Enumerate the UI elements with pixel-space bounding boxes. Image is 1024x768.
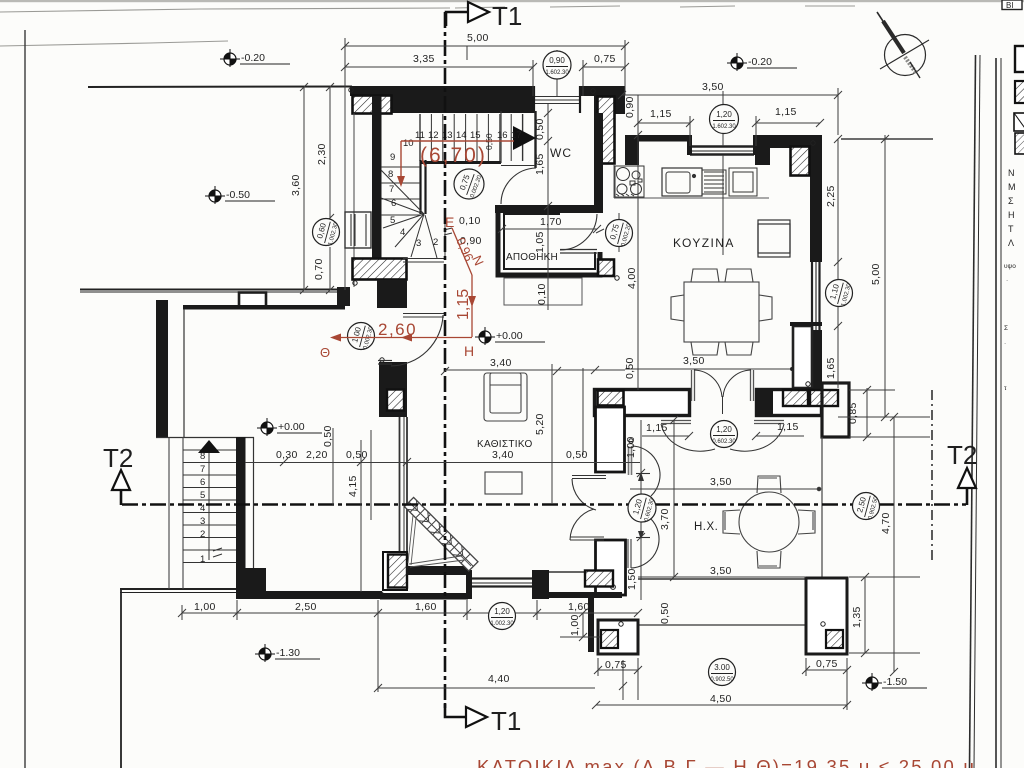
column C7 SW living hatched xyxy=(383,552,407,590)
top wall outer strip xyxy=(350,86,535,96)
boundary wall bar left of stair block xyxy=(337,287,350,306)
south site boundary xyxy=(120,589,238,593)
4,50 dim xyxy=(596,704,847,706)
svg-text:Σ: Σ xyxy=(1004,325,1008,332)
veranda north wall right part xyxy=(757,390,822,416)
kitchen south wall (hollow) xyxy=(595,390,690,416)
column C6 hatched xyxy=(387,390,404,411)
east dim 5,00 xyxy=(884,135,886,417)
stair core wall xyxy=(419,160,421,214)
kitchen east window xyxy=(812,262,820,330)
armchair living xyxy=(484,373,527,421)
left flight treads xyxy=(381,167,421,215)
svg-text:1,20: 1,20 xyxy=(716,110,732,119)
outdoor stair numbers xyxy=(200,451,205,565)
window centerline kitchen xyxy=(722,91,724,146)
svg-text:ΑΠΟΘΗΚΗ: ΑΠΟΘΗΚΗ xyxy=(506,252,558,263)
svg-text:0,75: 0,75 xyxy=(816,658,838,670)
svg-text:T1: T1 xyxy=(492,1,522,31)
hall small dims row xyxy=(245,462,640,464)
garage west wall xyxy=(156,300,168,437)
svg-text:2: 2 xyxy=(200,529,205,540)
svg-text:16: 16 xyxy=(497,130,508,141)
T1 bottom flag xyxy=(445,703,466,717)
svg-text:Τ: Τ xyxy=(1008,224,1014,234)
kitchen north wall xyxy=(625,135,689,142)
T2 horizontal dash-dot xyxy=(122,503,966,506)
living west glass wall xyxy=(400,417,408,554)
svg-text:3: 3 xyxy=(200,516,205,527)
4,40 dim xyxy=(378,687,595,689)
veranda 3,50 top dim xyxy=(630,488,819,490)
entrance door xyxy=(391,315,443,366)
svg-text:Ν: Ν xyxy=(1008,168,1015,178)
window centerline xyxy=(556,50,558,96)
svg-text:2,30: 2,30 xyxy=(316,143,328,165)
svg-text:1,65: 1,65 xyxy=(825,357,837,379)
svg-text:2: 2 xyxy=(433,237,438,248)
svg-text:ΚΑΘΙΣΤΙΚΟ: ΚΑΘΙΣΤΙΚΟ xyxy=(477,439,533,450)
WC west partition line xyxy=(534,111,536,168)
garage south edge xyxy=(156,437,254,439)
south window xyxy=(472,579,532,587)
step 2 tick marks xyxy=(444,228,452,235)
svg-text:1,15: 1,15 xyxy=(646,422,668,434)
legend vertical letters xyxy=(1008,168,1016,248)
landing lines below stairs xyxy=(403,258,444,260)
svg-text:Λ: Λ xyxy=(1008,238,1014,248)
top wall inner mass xyxy=(373,95,534,113)
low shelf below storage 0,10 xyxy=(504,278,582,305)
svg-text:-0.20: -0.20 xyxy=(748,56,772,68)
veranda door dims 1,15 1,15 xyxy=(642,435,689,437)
living west wall xyxy=(379,362,407,417)
garage north wall xyxy=(183,305,345,310)
hall 3,40 dim xyxy=(445,369,625,371)
legend title box top right xyxy=(1002,0,1022,10)
svg-text:10: 10 xyxy=(403,138,414,149)
svg-text:1.602.30: 1.602.30 xyxy=(712,124,736,130)
svg-text:17: 17 xyxy=(511,130,522,141)
svg-text:5,00: 5,00 xyxy=(870,263,882,285)
svg-text:15: 15 xyxy=(470,130,481,141)
svg-text:0,50: 0,50 xyxy=(624,357,636,379)
svg-text:8: 8 xyxy=(388,169,393,180)
storage door arc xyxy=(560,214,597,250)
svg-text:2,50: 2,50 xyxy=(295,601,317,613)
west wall of stair block xyxy=(372,96,382,262)
dim 5,00 top xyxy=(345,45,625,47)
bottom dims row y613 xyxy=(182,612,638,614)
living south wall upper line xyxy=(406,566,468,575)
svg-text:1,20: 1,20 xyxy=(716,425,732,434)
svg-text:4,50: 4,50 xyxy=(710,693,732,705)
0,75 bottom dims xyxy=(598,669,638,671)
svg-text:3,40: 3,40 xyxy=(490,357,512,369)
dim 3,35 xyxy=(345,66,533,68)
svg-text:3: 3 xyxy=(416,238,421,249)
svg-text:0,85: 0,85 xyxy=(847,402,859,424)
T1 top flag xyxy=(446,12,468,26)
wall going down to SW veranda post xyxy=(588,598,594,652)
svg-text:1,15: 1,15 xyxy=(775,106,797,118)
svg-text:1,60: 1,60 xyxy=(415,601,437,613)
svg-text:0,75: 0,75 xyxy=(594,53,616,65)
svg-text:8: 8 xyxy=(200,451,205,462)
svg-text:0,30: 0,30 xyxy=(276,449,298,461)
veranda south parapet lines xyxy=(638,578,806,580)
west site boundary lower xyxy=(120,589,122,768)
svg-text:-1.50: -1.50 xyxy=(883,676,907,688)
svg-text:3.00: 3.00 xyxy=(714,663,730,672)
svg-text:·: · xyxy=(1004,340,1006,347)
svg-text:1,70: 1,70 xyxy=(540,216,562,228)
svg-text:0,90: 0,90 xyxy=(549,56,565,65)
svg-text:3,70: 3,70 xyxy=(659,508,671,530)
svg-text:3,40: 3,40 xyxy=(492,449,514,461)
top flight treads xyxy=(420,114,523,161)
svg-text:13: 13 xyxy=(442,130,453,141)
stove xyxy=(615,166,644,197)
east dims 2,25 / 1,10 / 1,65 xyxy=(837,139,839,388)
svg-text:0,50: 0,50 xyxy=(322,425,334,447)
svg-text:0.902.50: 0.902.50 xyxy=(710,677,734,683)
columns C9 C10 hatched xyxy=(783,390,808,406)
svg-text:14: 14 xyxy=(456,130,467,141)
WC east wall xyxy=(594,113,603,206)
scan top edge band xyxy=(0,0,1024,2)
svg-text:T1: T1 xyxy=(491,706,521,736)
svg-text:1,00: 1,00 xyxy=(569,614,581,636)
svg-text:9: 9 xyxy=(390,152,395,163)
window in top wall xyxy=(534,97,580,104)
svg-text:E: E xyxy=(445,214,454,230)
WC door arc xyxy=(501,168,536,204)
left dim 3,60 / 2,30 xyxy=(303,87,305,290)
T1 vertical dash-dot xyxy=(444,12,447,712)
svg-text:1,20: 1,20 xyxy=(494,607,510,616)
svg-text:3,60: 3,60 xyxy=(290,174,302,196)
svg-text:0,50: 0,50 xyxy=(659,602,671,624)
site boundary left-bottom line xyxy=(80,290,338,293)
svg-text:1,15: 1,15 xyxy=(650,108,672,120)
svg-text:5,20: 5,20 xyxy=(534,413,546,435)
svg-text:4,15: 4,15 xyxy=(347,475,359,497)
svg-text:Θ: Θ xyxy=(320,345,330,360)
svg-text:1.602.30: 1.602.30 xyxy=(545,70,569,76)
svg-text:4: 4 xyxy=(400,227,405,238)
svg-text:0,10: 0,10 xyxy=(536,283,548,305)
sheet left edge line xyxy=(24,30,26,768)
svg-text:H: H xyxy=(464,343,474,359)
legend symbol boxes xyxy=(1015,46,1024,72)
svg-text:0,50: 0,50 xyxy=(566,449,588,461)
kitchen width dim 3,50 xyxy=(625,368,792,370)
counter appliance right xyxy=(729,168,757,196)
dim 3,50 kitchen top xyxy=(622,94,838,96)
corner box NE veranda xyxy=(822,383,849,437)
svg-text:υψο: υψο xyxy=(1004,263,1016,270)
svg-text:0,70: 0,70 xyxy=(313,258,325,280)
svg-text:ΚΟΥΖΙΝΑ: ΚΟΥΖΙΝΑ xyxy=(673,236,735,250)
south wall block xyxy=(536,570,549,599)
winder radiating treads xyxy=(381,170,445,258)
column C5 storage SE hatched xyxy=(598,260,614,277)
svg-text:0,90: 0,90 xyxy=(624,96,636,118)
wall right of WC going down xyxy=(613,96,625,114)
coffee table xyxy=(485,472,522,494)
wall block bottom left of building xyxy=(236,568,266,599)
wall pillar boxes living/veranda xyxy=(596,407,625,472)
svg-text:4,40: 4,40 xyxy=(488,673,510,685)
veranda west doors (double swing) xyxy=(570,446,660,568)
svg-text:1,65: 1,65 xyxy=(534,153,546,175)
svg-text:0,10: 0,10 xyxy=(459,215,481,227)
svg-text:4,00: 4,00 xyxy=(626,267,638,289)
veranda east edge line xyxy=(821,437,823,578)
svg-text:3,50: 3,50 xyxy=(683,355,705,367)
west lightwell window box xyxy=(345,212,371,248)
svg-text:1.002.30: 1.002.30 xyxy=(490,621,514,627)
storage door leaf xyxy=(560,250,597,254)
top wall right segment xyxy=(580,86,625,96)
svg-text:3,50: 3,50 xyxy=(710,476,732,488)
outdoor stair right wall xyxy=(236,437,246,570)
column C3 bottom of west wall hatched xyxy=(353,259,407,280)
svg-text:1,00: 1,00 xyxy=(194,601,216,613)
corridor / storage top wall xyxy=(495,205,603,213)
svg-text:1,00: 1,00 xyxy=(625,436,637,458)
wall block below C3 xyxy=(377,280,407,308)
storage walls double line xyxy=(498,209,600,275)
svg-text:1,05: 1,05 xyxy=(534,231,546,253)
svg-text:0,75: 0,75 xyxy=(605,659,627,671)
wc dim line xyxy=(547,104,549,206)
svg-text:11: 11 xyxy=(415,130,425,141)
veranda SW post xyxy=(598,620,638,654)
column C2 tall hatched right of WC xyxy=(598,97,615,164)
dim 0,75 top xyxy=(583,66,625,68)
boundary chimney notch xyxy=(239,293,266,307)
svg-text:Η.Χ.: Η.Χ. xyxy=(694,521,718,533)
svg-text:7: 7 xyxy=(389,184,394,195)
svg-text:5: 5 xyxy=(200,490,205,501)
svg-text:τ: τ xyxy=(1004,385,1007,392)
svg-text:6: 6 xyxy=(391,198,396,209)
right area vertical dash line xyxy=(931,390,933,560)
fridge box xyxy=(758,220,790,257)
kitchen dining table xyxy=(671,269,772,355)
svg-text:2,20: 2,20 xyxy=(306,449,328,461)
sink xyxy=(662,168,726,196)
room labels xyxy=(477,146,735,533)
legend strip frame xyxy=(996,58,1001,768)
svg-text:T2: T2 xyxy=(103,443,133,473)
svg-text:Σ: Σ xyxy=(1008,196,1014,206)
svg-text:12: 12 xyxy=(428,130,439,141)
left 1,00 dim (veranda west) xyxy=(640,420,642,600)
dims 1,15 kitchen xyxy=(638,122,690,124)
veranda 3,70 dim xyxy=(673,420,675,577)
svg-text:ΚΑΤΟΙΚΙΑ max (Α,Β,Γ — Η,Θ)=19,: ΚΑΤΟΙΚΙΑ max (Α,Β,Γ — Η,Θ)=19,35 μ ≤ 25,… xyxy=(477,756,976,768)
column C4 hatched xyxy=(791,147,810,176)
svg-text:1,15: 1,15 xyxy=(455,289,472,320)
svg-text:-0.20: -0.20 xyxy=(241,52,265,64)
svg-text:3,50: 3,50 xyxy=(702,81,724,93)
landing edge bold xyxy=(420,161,501,164)
svg-text:2,25: 2,25 xyxy=(825,185,837,207)
misc extension stubs xyxy=(466,46,468,60)
rotated dimension texts xyxy=(290,96,892,636)
svg-text:1: 1 xyxy=(200,554,205,565)
west lightwell lines xyxy=(344,87,346,290)
counter edge xyxy=(614,197,769,199)
kitchen east counter block xyxy=(793,326,812,388)
kitchen east wall lower xyxy=(810,330,822,388)
svg-text:3,50: 3,50 xyxy=(710,565,732,577)
kitchen NE wall corner xyxy=(755,135,822,148)
veranda 3,50 bottom dim xyxy=(638,576,806,578)
svg-text:1,50: 1,50 xyxy=(626,568,638,590)
svg-text:WC: WC xyxy=(550,146,572,160)
svg-text:ΒΙ: ΒΙ xyxy=(1006,1,1014,10)
right page edge xyxy=(970,55,981,768)
scan artifact top lines xyxy=(0,6,855,46)
svg-text:1,35: 1,35 xyxy=(851,606,863,628)
south opening lines + C14 xyxy=(549,571,588,573)
french doors kitchen->veranda xyxy=(661,370,784,424)
svg-text:4,70: 4,70 xyxy=(880,512,892,534)
svg-text:-0.50: -0.50 xyxy=(226,189,250,201)
site boundary top line xyxy=(88,86,352,89)
svg-text:3,35: 3,35 xyxy=(413,53,435,65)
stair numbers xyxy=(388,130,522,249)
storage right circle line xyxy=(618,213,620,252)
0,85 dim xyxy=(866,388,868,437)
1,00 small right dim xyxy=(582,613,584,637)
stair direction black arrow xyxy=(513,126,536,150)
left boundary lines below garage xyxy=(168,437,170,589)
svg-text:0,50: 0,50 xyxy=(534,118,546,140)
svg-text:+0.00: +0.00 xyxy=(496,330,523,342)
svg-text:T2: T2 xyxy=(947,440,977,470)
svg-text:5: 5 xyxy=(390,215,395,226)
veranda SE post xyxy=(806,578,847,654)
svg-text:Μ: Μ xyxy=(1008,182,1016,192)
svg-text:1,60: 1,60 xyxy=(568,601,590,613)
svg-text:6: 6 xyxy=(200,477,205,488)
svg-text:5,00: 5,00 xyxy=(467,32,489,44)
column C1 top-left hatched xyxy=(353,96,392,114)
living south wall lower band xyxy=(380,593,468,600)
storage 1,70 xyxy=(502,228,597,230)
direction arrow xyxy=(198,440,220,453)
svg-text:+0.00: +0.00 xyxy=(278,421,305,433)
svg-text:2,60: 2,60 xyxy=(378,320,417,339)
4,70 dim xyxy=(893,417,895,672)
svg-text:7: 7 xyxy=(200,464,205,475)
1,35 dim xyxy=(864,577,866,653)
svg-text:Η: Η xyxy=(1008,210,1015,220)
svg-text:·: · xyxy=(1006,277,1008,284)
svg-text:0,50: 0,50 xyxy=(346,449,368,461)
svg-text:-1.30: -1.30 xyxy=(276,647,300,659)
svg-text:1,15: 1,15 xyxy=(777,421,799,433)
kitchen north window xyxy=(690,147,754,155)
fireplace corner xyxy=(404,497,478,571)
kitchen west ref line xyxy=(637,95,639,390)
north compass symbol xyxy=(877,12,929,78)
column C8 hatched xyxy=(598,391,624,406)
svg-text:(6,70): (6,70) xyxy=(420,144,487,167)
svg-text:0.602.30: 0.602.30 xyxy=(712,439,736,445)
veranda round table xyxy=(723,476,815,568)
